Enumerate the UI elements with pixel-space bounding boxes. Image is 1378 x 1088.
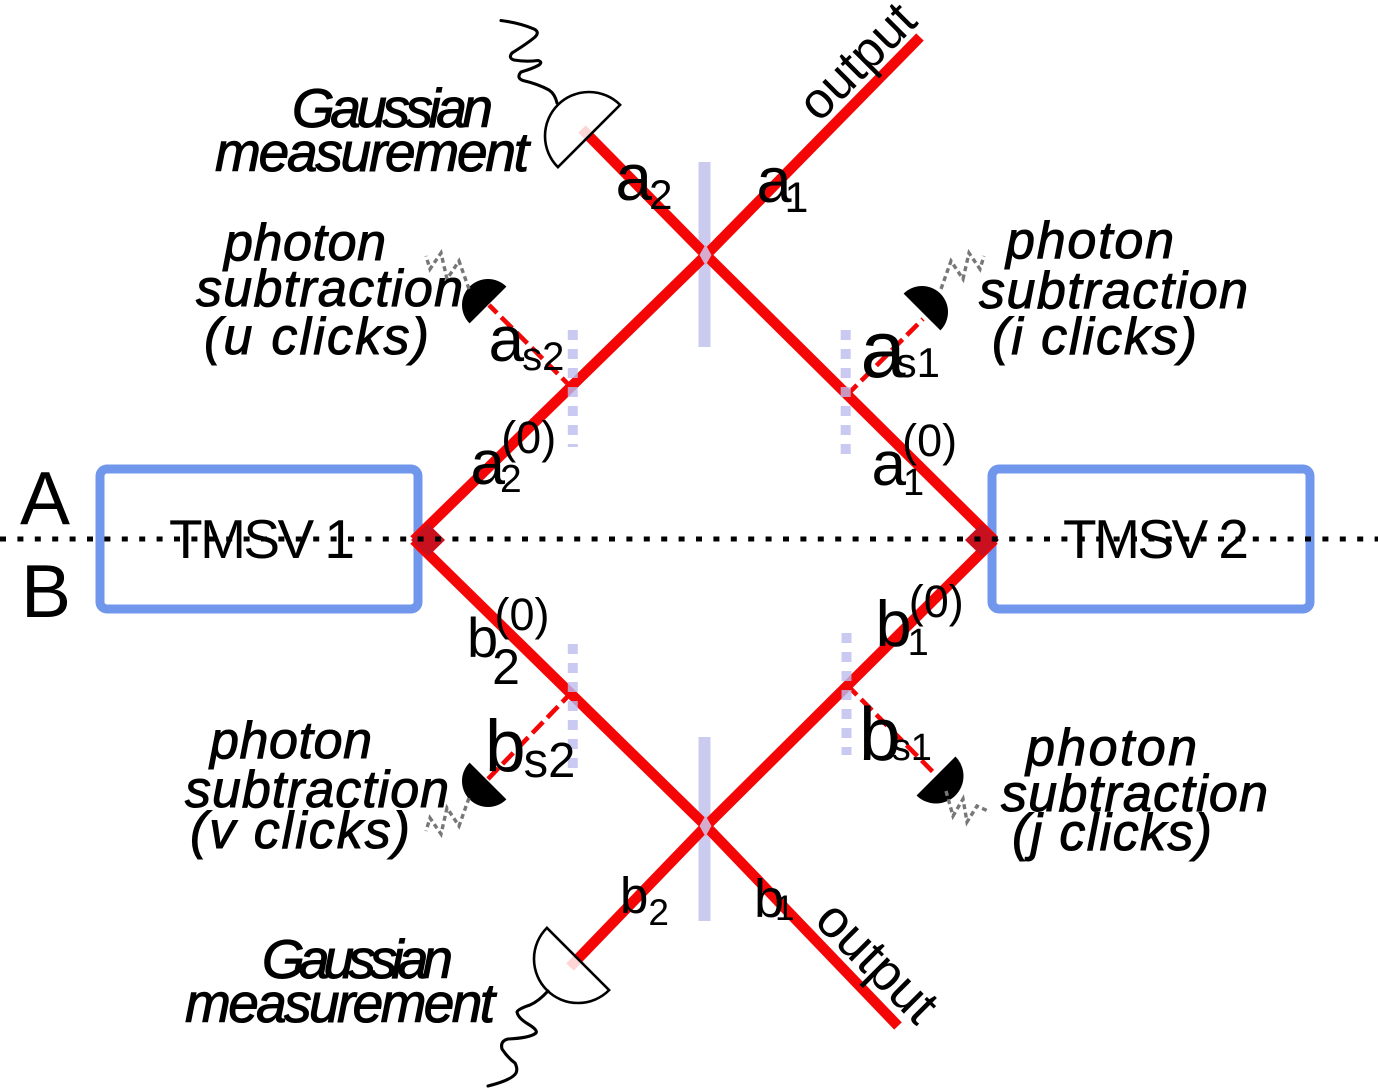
wire: gray squiggle lead lower-left <box>426 798 469 834</box>
wire: dashed tap b_s1 to photon-subtraction detector <box>846 684 936 775</box>
svg-text:measurement: measurement <box>215 121 532 183</box>
wire: beam TMSV1 mode a2(0) up to top beamsplitter <box>414 255 706 540</box>
node: dotted A/B partition line <box>0 537 1378 542</box>
node output label bottom <box>804 889 950 1035</box>
TMSV 1 source box <box>100 469 418 609</box>
node: dark overlap at TMSV1 beam apex <box>411 524 445 557</box>
wire: beam a2 from top beamsplitter to Gaussian detector <box>582 129 706 255</box>
TMSV 2 source box <box>992 469 1310 609</box>
wire: beam b2 from bottom beamsplitter to Gaussian detector <box>570 826 706 967</box>
node output label top <box>786 0 927 131</box>
wire: dashed tap a_s1 to photon-subtraction detector <box>846 319 923 396</box>
svg-text:TMSV 2: TMSV 2 <box>1063 508 1249 570</box>
detector D6: photon-subtraction detector lower-right (black half-disc) <box>917 757 975 815</box>
svg-text:measurement: measurement <box>185 972 498 1034</box>
wire: dashed tap a_s2 to photon-subtraction detector <box>489 305 573 389</box>
detector D1: Gaussian measurement detector top (half-disc) <box>527 74 620 167</box>
wire: beam TMSV2 mode a1(0) up to top beamsplitter <box>706 255 994 540</box>
subtraction beamsplitter (dashed) lower-right <box>842 633 852 755</box>
wire: gray squiggle lead upper-left <box>426 253 469 289</box>
wire: squiggly lead of top Gaussian detector <box>501 21 557 104</box>
svg-text:B: B <box>21 549 71 633</box>
top main beamsplitter <box>699 162 711 347</box>
wire: gray squiggle lead upper-right <box>941 253 984 289</box>
bottom main beamsplitter <box>699 737 711 921</box>
detector D2: Gaussian measurement detector bottom (half-disc) <box>516 928 609 1021</box>
svg-text:(u clicks): (u clicks) <box>204 308 429 366</box>
wire: beam TMSV2 mode b1(0) down to bottom beamsplitter <box>706 540 994 826</box>
subtraction beamsplitter (dashed) lower-left <box>568 644 578 770</box>
node: dark overlap at TMSV2 beam apex <box>965 524 999 557</box>
wire: dashed tap b_s2 to photon-subtraction detector <box>488 691 573 779</box>
wire: output beam b1 from bottom beamsplitter to lower right <box>706 826 898 1026</box>
svg-text:TMSV 1: TMSV 1 <box>169 508 355 570</box>
svg-text:(v clicks): (v clicks) <box>190 802 410 860</box>
svg-text:(j clicks): (j clicks) <box>1012 804 1212 862</box>
svg-text:A: A <box>20 456 70 540</box>
subtraction beamsplitter (dashed) upper-right <box>841 330 851 458</box>
wire: gray squiggle lead lower-right <box>946 791 988 822</box>
node: blended diamond at top beamsplitter crossing <box>700 245 712 266</box>
subtraction beamsplitter (dashed) upper-left <box>568 330 578 447</box>
detector D3: photon-subtraction detector upper-left (black half-disc) <box>451 268 506 323</box>
node: blended diamond at bottom beamsplitter crossing <box>700 816 712 837</box>
wire: squiggly lead of bottom Gaussian detector <box>488 991 548 1086</box>
detector D4: photon-subtraction detector upper-right (black half-disc) <box>904 275 959 330</box>
wire: beam TMSV1 mode b2(0) down to bottom beamsplitter <box>414 540 706 826</box>
detector D5: photon-subtraction detector lower-left (black half-disc) <box>451 763 506 818</box>
wire: output beam a1 from top beamsplitter to upper right <box>706 37 920 255</box>
